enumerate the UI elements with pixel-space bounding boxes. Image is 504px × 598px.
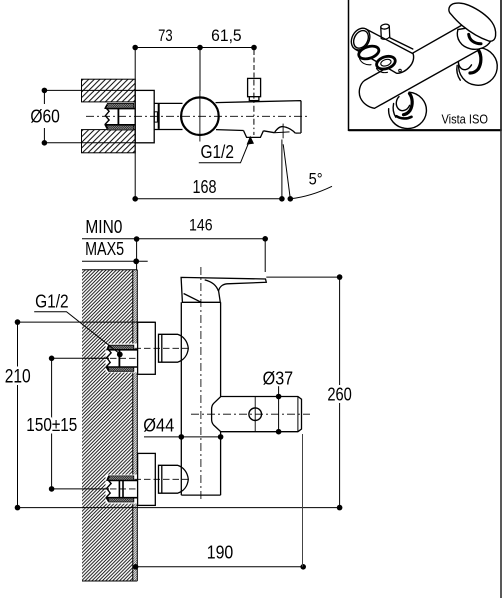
svg-text:Ø37: Ø37 <box>263 368 294 389</box>
svg-text:210: 210 <box>5 366 31 387</box>
svg-text:150±15: 150±15 <box>26 414 77 435</box>
svg-text:G1/2: G1/2 <box>35 291 69 311</box>
svg-text:260: 260 <box>327 383 352 404</box>
svg-text:Ø44: Ø44 <box>143 414 174 435</box>
svg-text:Vista ISO: Vista ISO <box>441 111 488 126</box>
svg-text:Ø60: Ø60 <box>30 106 60 127</box>
svg-text:146: 146 <box>189 216 213 235</box>
svg-text:168: 168 <box>193 176 217 197</box>
svg-text:190: 190 <box>207 543 234 563</box>
svg-text:G1/2: G1/2 <box>200 142 234 162</box>
svg-text:61,5: 61,5 <box>211 27 242 45</box>
svg-text:5°: 5° <box>309 171 323 189</box>
svg-text:MIN0: MIN0 <box>85 217 122 237</box>
svg-text:73: 73 <box>158 27 173 45</box>
svg-text:MAX5: MAX5 <box>85 239 124 259</box>
